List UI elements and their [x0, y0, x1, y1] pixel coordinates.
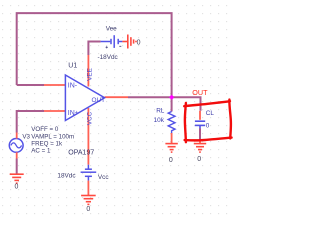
svg-text:OUT: OUT — [92, 97, 106, 104]
op-amp U1 pin OUT stub — [105, 96, 128, 98]
svg-text:VAMPL = 100m: VAMPL = 100m — [31, 133, 74, 140]
op-amp U1 pin IN+ stub — [44, 110, 65, 112]
ground 0 at Vee (rotated) — [122, 35, 136, 49]
svg-text:OUT: OUT — [192, 88, 208, 97]
ground 0 under RL — [165, 144, 177, 153]
battery Vcc — [81, 165, 97, 181]
resistor RL — [168, 112, 175, 134]
svg-text:0: 0 — [137, 40, 141, 47]
svg-text:AC = 1: AC = 1 — [31, 147, 51, 154]
wire CL to ground — [199, 129, 201, 140]
wire junction to RL — [171, 97, 173, 111]
svg-text:IN+: IN+ — [68, 110, 79, 117]
svg-text:Vee: Vee — [106, 26, 117, 33]
svg-text:-18Vdc: -18Vdc — [98, 54, 119, 61]
svg-text:RL: RL — [156, 108, 165, 115]
op-amp U1 pin IN- stub — [44, 84, 65, 86]
svg-text:IN-: IN- — [68, 83, 78, 90]
wire V3 to IN+ — [17, 111, 44, 133]
grid dots — [0, 0, 233, 217]
wire feedback loop OUT to IN- — [17, 13, 172, 97]
capacitor CL pin stub top — [199, 111, 201, 120]
sine source V3 — [9, 139, 23, 153]
op-amp U1 triangle — [65, 75, 104, 121]
junction node OUT — [169, 95, 174, 100]
ground 0 under V3 — [10, 174, 24, 183]
svg-text:Vcc: Vcc — [98, 174, 109, 181]
svg-text:0: 0 — [169, 157, 173, 164]
voltage source Vee battery — [101, 35, 123, 48]
ground 0 under CL — [194, 144, 206, 153]
svg-text:0: 0 — [206, 122, 210, 129]
op-amp U1 pin VEE stub — [87, 55, 89, 87]
capacitor CL plates — [195, 121, 205, 128]
svg-text:18Vdc: 18Vdc — [57, 172, 76, 179]
wire Vcc battery to ground — [87, 181, 89, 195]
sine source V3 pin stubs — [16, 133, 18, 159]
svg-text:10k: 10k — [154, 117, 165, 124]
wire V3 to ground — [16, 159, 18, 175]
wire RL to ground — [171, 133, 173, 143]
svg-text:OPA197: OPA197 — [68, 149, 94, 156]
svg-text:0: 0 — [15, 183, 19, 190]
svg-text:CL: CL — [206, 110, 215, 117]
wire OUT to CL corner — [128, 97, 201, 111]
ground 0 under Vcc — [81, 196, 96, 205]
svg-text:V3: V3 — [22, 134, 30, 141]
wire CL to ground — [199, 139, 201, 143]
op-amp U1 pin VCC stub — [87, 108, 89, 165]
svg-text:U1: U1 — [68, 62, 77, 69]
Vee battery polarity marks — [106, 46, 122, 48]
svg-text:VEE: VEE — [86, 68, 93, 81]
svg-text:0: 0 — [86, 206, 90, 213]
svg-text:0: 0 — [197, 156, 201, 163]
svg-text:VOFF = 0: VOFF = 0 — [31, 126, 59, 133]
sine source V3 waveform — [11, 143, 22, 148]
svg-text:VCC: VCC — [86, 111, 93, 125]
sine source V3 properties — [31, 126, 74, 154]
annotation red box around CL — [184, 100, 231, 143]
wire VEE supply — [88, 42, 100, 56]
